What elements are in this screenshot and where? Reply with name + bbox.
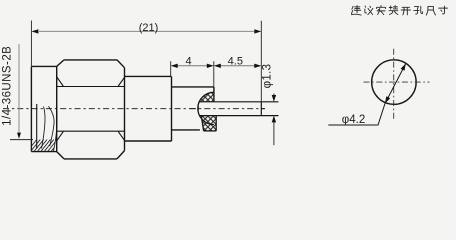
grommet dome hatch (above pin) (198, 92, 214, 115)
svg-text:(21): (21) (139, 22, 159, 34)
char zhuang (389, 6, 398, 15)
mounting hole circle (372, 60, 417, 105)
char kong (414, 6, 423, 14)
svg-text:4.5: 4.5 (228, 55, 243, 67)
dimension (21) (31, 21, 261, 102)
title: hand-drawn strokes for CJK chars (351, 5, 447, 15)
svg-text:4: 4 (185, 55, 191, 67)
barrel (172, 87, 214, 130)
center pin (199, 102, 261, 116)
insulator cone curves (lower half) (42, 106, 57, 151)
char jian (351, 6, 361, 15)
svg-text:1/4-36UNS-2B: 1/4-36UNS-2B (2, 46, 14, 126)
dimension 4.5 (214, 55, 261, 86)
nut inner bore line (section, lower half) (36, 104, 38, 149)
section hatch in nut wall (lower-left) (26, 133, 66, 153)
char yi (365, 6, 373, 15)
step section after hex (125, 76, 172, 141)
diameter line (385, 64, 406, 104)
svg-text:φ1.3: φ1.3 (262, 64, 274, 89)
char chi (426, 6, 435, 15)
circle centerlines (364, 81, 430, 83)
hex nut body (57, 60, 125, 159)
grommet lower block (201, 115, 216, 131)
char an (377, 5, 386, 14)
connector nut front face outer (31, 66, 56, 151)
hex facet lines (57, 77, 125, 141)
dimension phi 1.3 (262, 64, 277, 146)
svg-text:φ4.2: φ4.2 (342, 114, 365, 126)
leader phi 4.2 (328, 104, 385, 126)
thread extension line (10, 139, 33, 141)
main centerline (3, 108, 265, 110)
char kai (401, 7, 410, 15)
char cun (439, 6, 448, 14)
centerline over pin (190, 108, 265, 110)
grommet dome outline over pin (198, 92, 214, 124)
dimension 4 (171, 55, 214, 76)
thread leader line (18, 44, 20, 133)
